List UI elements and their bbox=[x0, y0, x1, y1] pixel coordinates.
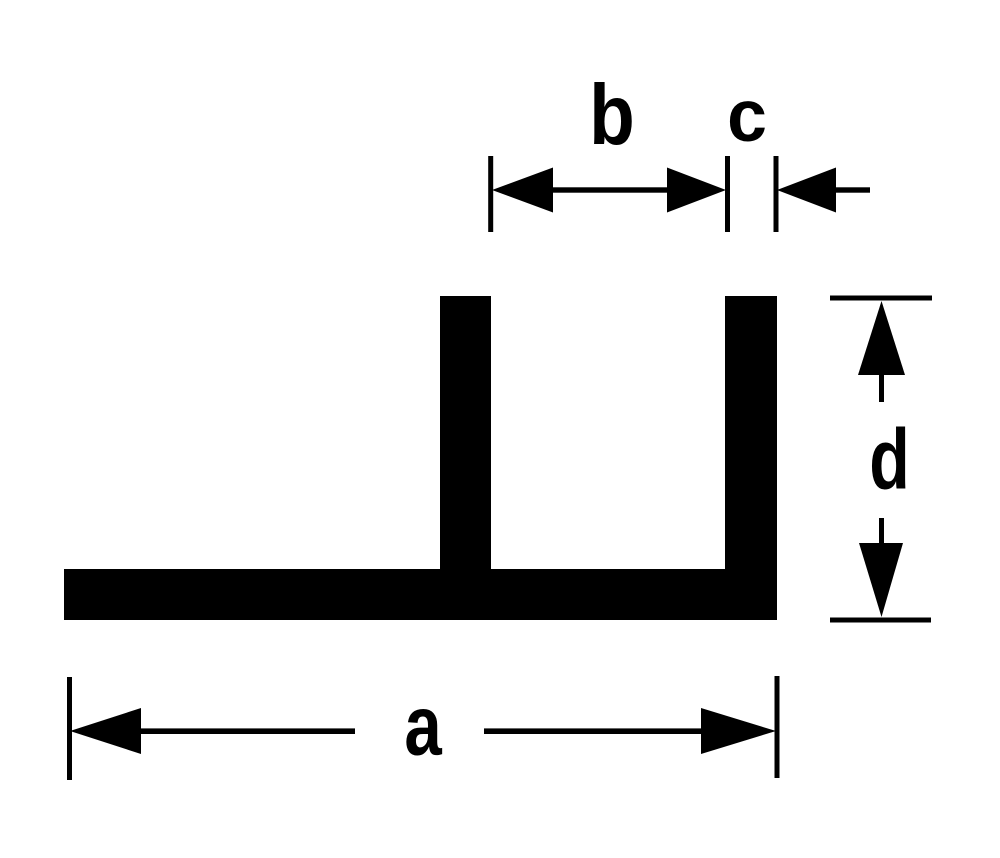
dimension d: down arrowhead bbox=[859, 543, 903, 617]
dimension d: up arrowhead bbox=[858, 301, 905, 375]
dimension a: right line segment bbox=[484, 728, 702, 734]
dimension a: extension tick left bbox=[67, 677, 72, 780]
dimension b: extension tick left bbox=[488, 156, 493, 232]
profile cross-section (h-shape extrusion) bbox=[64, 296, 777, 620]
dimension c: right arrowhead (outside, pointing left) bbox=[777, 168, 836, 213]
dimension b: left arrowhead bbox=[492, 168, 553, 213]
dimension c: extension tick right bbox=[774, 156, 779, 232]
svg-text:a: a bbox=[404, 679, 442, 773]
dimension d: lower stub line bbox=[879, 518, 884, 544]
dimension a: left arrowhead bbox=[70, 708, 141, 754]
dimension b: extension tick right bbox=[725, 156, 730, 232]
dimension a: left line segment bbox=[139, 728, 355, 734]
dimension c: tail line bbox=[834, 187, 870, 192]
svg-text:c: c bbox=[727, 76, 767, 157]
dimension b: line bbox=[551, 187, 670, 192]
dimension d: top extension line bbox=[830, 296, 932, 301]
svg-text:b: b bbox=[589, 68, 635, 162]
dimension a: right arrowhead bbox=[701, 708, 776, 754]
svg-text:d: d bbox=[869, 413, 909, 508]
dimension d: upper stub line bbox=[879, 374, 884, 402]
dimension a: extension tick right bbox=[775, 676, 780, 778]
dimension b: right arrowhead bbox=[667, 168, 726, 213]
dimension d: bottom extension line bbox=[830, 618, 931, 623]
